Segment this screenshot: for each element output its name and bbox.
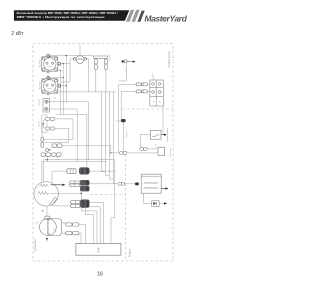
generator pair 1 — [66, 223, 79, 226]
wire socket1 right — [61, 63, 70, 65]
selector grid box — [150, 80, 163, 106]
wire gen pair1 — [62, 222, 66, 224]
wire dc minus — [48, 109, 77, 162]
row2 inline pills — [118, 182, 125, 185]
svg-text:2: 2 — [64, 223, 65, 225]
wire row3 out b — [90, 207, 101, 244]
wire black conn drop — [123, 122, 125, 153]
loop-back connector block — [42, 115, 55, 132]
svg-text:N.F.B.: N.F.B. — [39, 121, 41, 127]
wire mid vertical d — [113, 92, 115, 184]
svg-text:MasterYard: MasterYard — [144, 13, 187, 23]
wire oil feed 2 — [111, 152, 158, 154]
generator ground dot — [46, 238, 48, 242]
charge coil output arrow — [161, 187, 168, 189]
svg-text:Oil sensor: Oil sensor — [169, 147, 172, 157]
svg-text:12V: 12V — [53, 97, 57, 99]
wire gen pair2 — [62, 232, 66, 234]
svg-text:off: off — [159, 101, 161, 104]
logo stripe 2 — [132, 10, 140, 22]
wire coil top feed a — [41, 162, 43, 182]
svg-text:AC230V: AC230V — [39, 81, 42, 89]
wire pairA right — [147, 83, 150, 85]
svg-text:DC12V: DC12V — [39, 98, 41, 105]
wire row2 pills to coil box — [125, 183, 135, 185]
logo stripe 1 — [126, 10, 134, 22]
svg-text:3Ф: 3Ф — [35, 221, 38, 224]
svg-text:Fu: Fu — [109, 58, 111, 60]
wire row1 long route — [90, 170, 115, 172]
ignition arrow to row2 — [51, 184, 66, 186]
wire bus y91.9 — [59, 91, 116, 93]
generator pair 2 — [66, 232, 79, 235]
wire row3 out a — [90, 202, 104, 243]
AVR box — [76, 243, 121, 255]
key switch S1 — [74, 56, 87, 64]
wire mid vertical c — [110, 92, 114, 179]
engine switch box — [150, 130, 161, 139]
wire loop top out — [43, 119, 73, 140]
wire switch left drop — [61, 59, 75, 82]
oil feed pills 2 — [119, 151, 126, 154]
generator G — [40, 216, 62, 235]
svg-text:AC230V: AC230V — [39, 59, 42, 67]
wire engine switch left — [140, 135, 150, 148]
wire grid box down — [162, 106, 164, 133]
wire switch right drop — [85, 59, 89, 92]
wire vertical x60.3 — [59, 71, 61, 115]
wire socket2 right — [61, 85, 67, 87]
wire mid vertical b — [105, 92, 109, 175]
svg-text:16: 16 — [97, 271, 103, 277]
wire pairB right — [147, 90, 150, 92]
junction dots — [42, 55, 112, 212]
connector pair A — [136, 83, 147, 86]
wire bracket leg left drop — [95, 69, 97, 92]
svg-text:ст: ст — [44, 228, 46, 230]
svg-text:AVR: AVR — [97, 247, 101, 252]
wire secondary out — [50, 192, 81, 194]
wire row3 drop b — [85, 208, 94, 244]
tiny side labels — [35, 58, 157, 234]
wire gen pair2 out — [79, 233, 81, 243]
svg-text:рт: рт — [54, 228, 56, 230]
svg-text:1: 1 — [62, 152, 64, 154]
dashed separator horizontal right — [122, 108, 173, 110]
wire coil box bottom — [144, 193, 152, 203]
wire loop bottom out — [43, 129, 69, 143]
coil box input black pill — [135, 182, 139, 185]
wire circle to row3 — [53, 205, 71, 207]
wire numbered drop x47.2 — [46, 156, 48, 161]
wire socket1 top bus — [48, 55, 93, 57]
svg-text:Sw: Sw — [152, 73, 154, 76]
wire row2 out right — [90, 183, 119, 185]
svg-text:Engine: Engine — [127, 248, 131, 257]
logo slash — [137, 11, 144, 22]
wire numbered pair1 out — [62, 146, 111, 153]
svg-text:Бензиновый генератор МБГ 3500Е: Бензиновый генератор МБГ 3500Е / МБГ 360… — [17, 12, 118, 15]
wire bus y159.7 — [44, 159, 115, 161]
numbered connector group — [41, 137, 64, 156]
fuel unit bracket — [94, 55, 110, 70]
wire lamp drop — [119, 63, 127, 81]
engine switch arrow — [161, 134, 167, 136]
wire vertical x66.3 — [65, 56, 67, 102]
wire row3 drop a — [81, 208, 97, 244]
wire y114.4 — [56, 114, 87, 167]
engine row2 connector black — [80, 180, 90, 191]
wire numbered feed up — [41, 125, 43, 137]
dashed separator horizontal middle — [90, 194, 125, 196]
oil feed pills 1 — [140, 147, 147, 150]
wire gen pair1 out — [79, 225, 86, 244]
wire socket2 top — [48, 77, 63, 79]
wire x114.8 route — [111, 160, 115, 244]
wire coil top feed b — [43, 160, 45, 182]
wire pairB left — [121, 91, 136, 119]
header band — [14, 10, 129, 21]
socket J2 — [42, 77, 61, 96]
diode box D1 — [152, 201, 160, 207]
pilot lamp — [122, 60, 136, 63]
wire mid vertical a — [101, 92, 105, 172]
wire bracket leg right drop — [105, 69, 107, 92]
wire numbered drop x57.1 — [56, 156, 58, 159]
wire oil feed 1 — [147, 148, 158, 150]
wire ignition bottom — [46, 206, 48, 216]
engine row3 connector black — [80, 200, 90, 208]
wire dc plus — [48, 102, 88, 160]
oil sensor box — [158, 147, 165, 155]
wire vertical x63.2 — [62, 64, 64, 115]
wire row1 left — [52, 171, 68, 182]
outer dashed border — [33, 44, 173, 262]
wire black conn feed — [116, 120, 121, 122]
svg-text:on: on — [153, 101, 155, 103]
diode output arrow — [164, 202, 167, 204]
svg-text:YG: YG — [155, 143, 157, 146]
socket J1 — [42, 55, 61, 74]
connector pair B — [136, 90, 147, 93]
svg-text:Engine switch: Engine switch — [166, 127, 169, 141]
dashed separator vertical — [124, 154, 126, 261]
svg-text:Generator: Generator — [33, 239, 37, 251]
wire switch top — [79, 44, 81, 56]
charge coil box — [141, 174, 161, 193]
svg-text:2 кВт: 2 кВт — [11, 31, 24, 37]
wire grid box feed — [152, 76, 154, 80]
svg-text:Control panel: Control panel — [167, 51, 171, 67]
wire bus y161.5 — [42, 161, 107, 163]
engine row1 connector white — [67, 169, 76, 174]
engine row2 connector white — [70, 181, 80, 187]
wire pairA left — [119, 84, 136, 152]
svg-text:Eng.stop: Eng.stop — [125, 129, 128, 138]
wire row2-row3 link — [80, 191, 82, 199]
engine row3 connector white — [71, 200, 80, 207]
engine row1 connector black — [79, 167, 90, 174]
ignition coil T1 — [34, 182, 58, 206]
wire diode out — [159, 202, 164, 204]
dc terminal box — [43, 99, 50, 113]
svg-text:1: 1 — [64, 232, 65, 234]
svg-text:МБГ 6500ЕА • Инструкция по экс: МБГ 6500ЕА • Инструкция по эксплуатации — [17, 16, 106, 19]
black connector K1 — [121, 119, 126, 122]
